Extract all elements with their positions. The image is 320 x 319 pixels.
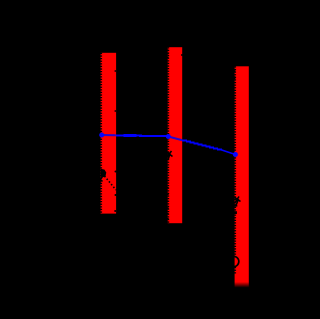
text fragments bar 3 xyxy=(234,197,241,267)
bar 1 xyxy=(101,53,117,214)
serrated left edge bar 3 xyxy=(234,66,236,256)
serrated left edge bar 1 xyxy=(100,53,102,214)
line segment bar2-bar3 (blue) xyxy=(182,139,222,150)
marker 1 xyxy=(99,133,104,138)
marker 2 xyxy=(166,134,171,139)
dotted diagonal bar 1 xyxy=(105,176,117,190)
bar 2 xyxy=(168,47,183,223)
bar 3 xyxy=(235,66,249,287)
marker 3 xyxy=(233,152,238,157)
text fragments bar 2 xyxy=(166,151,173,160)
serrated left edge bar 2 xyxy=(167,47,169,223)
line segment over bar 1 (purple) xyxy=(102,134,116,136)
text fragments bar 1 xyxy=(101,70,117,212)
long dashes bar 2 edge xyxy=(166,50,169,220)
line segment over bar 2 (purple) xyxy=(168,136,182,140)
blob bar 3 xyxy=(233,211,237,214)
deep notches bar 3 top xyxy=(234,70,236,79)
line segment bar1-bar2 (blue) xyxy=(116,134,169,137)
